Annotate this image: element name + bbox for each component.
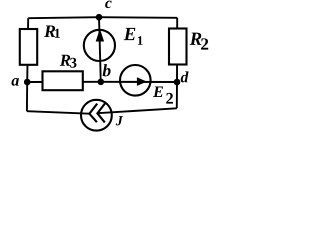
wire left (top corner through R1 to node a to bottom corner) [27, 18, 28, 111]
wire top (left corner to node c to right corner) [28, 17, 177, 18]
arrowhead E2 (points right) [137, 77, 147, 86]
wire middle horizontal (node a through R3, node b, E2 to node d) [27, 81, 177, 83]
label node b [102, 62, 113, 79]
resistor R1 [20, 29, 37, 65]
label node a [11, 76, 21, 88]
resistor R3 [43, 71, 83, 90]
label node c [104, 0, 114, 9]
arrowhead E1 (points up) [96, 29, 104, 42]
label R2 [189, 31, 210, 52]
wire bottom right (J to d-corner) [97, 108, 176, 113]
emf source E2 circle [120, 65, 151, 96]
current source J circle [81, 100, 112, 131]
emf source E1 circle [84, 30, 115, 61]
node c [96, 14, 103, 21]
label J [116, 115, 126, 128]
wire right (top corner through R2 to node d to bottom corner) [176, 18, 178, 109]
label E2 [151, 85, 175, 107]
label node d [180, 71, 191, 83]
wire vertical (node c through E1 to node b) [99, 17, 101, 82]
node d [174, 79, 181, 86]
node b [98, 79, 105, 86]
label E1 [122, 26, 145, 48]
current source J chevrons [89, 103, 105, 122]
resistor R2 [169, 29, 187, 65]
node a [24, 79, 31, 86]
label R3 [58, 54, 79, 70]
label R1 [42, 24, 61, 40]
wire bottom left (a-corner to J) [27, 111, 90, 114]
